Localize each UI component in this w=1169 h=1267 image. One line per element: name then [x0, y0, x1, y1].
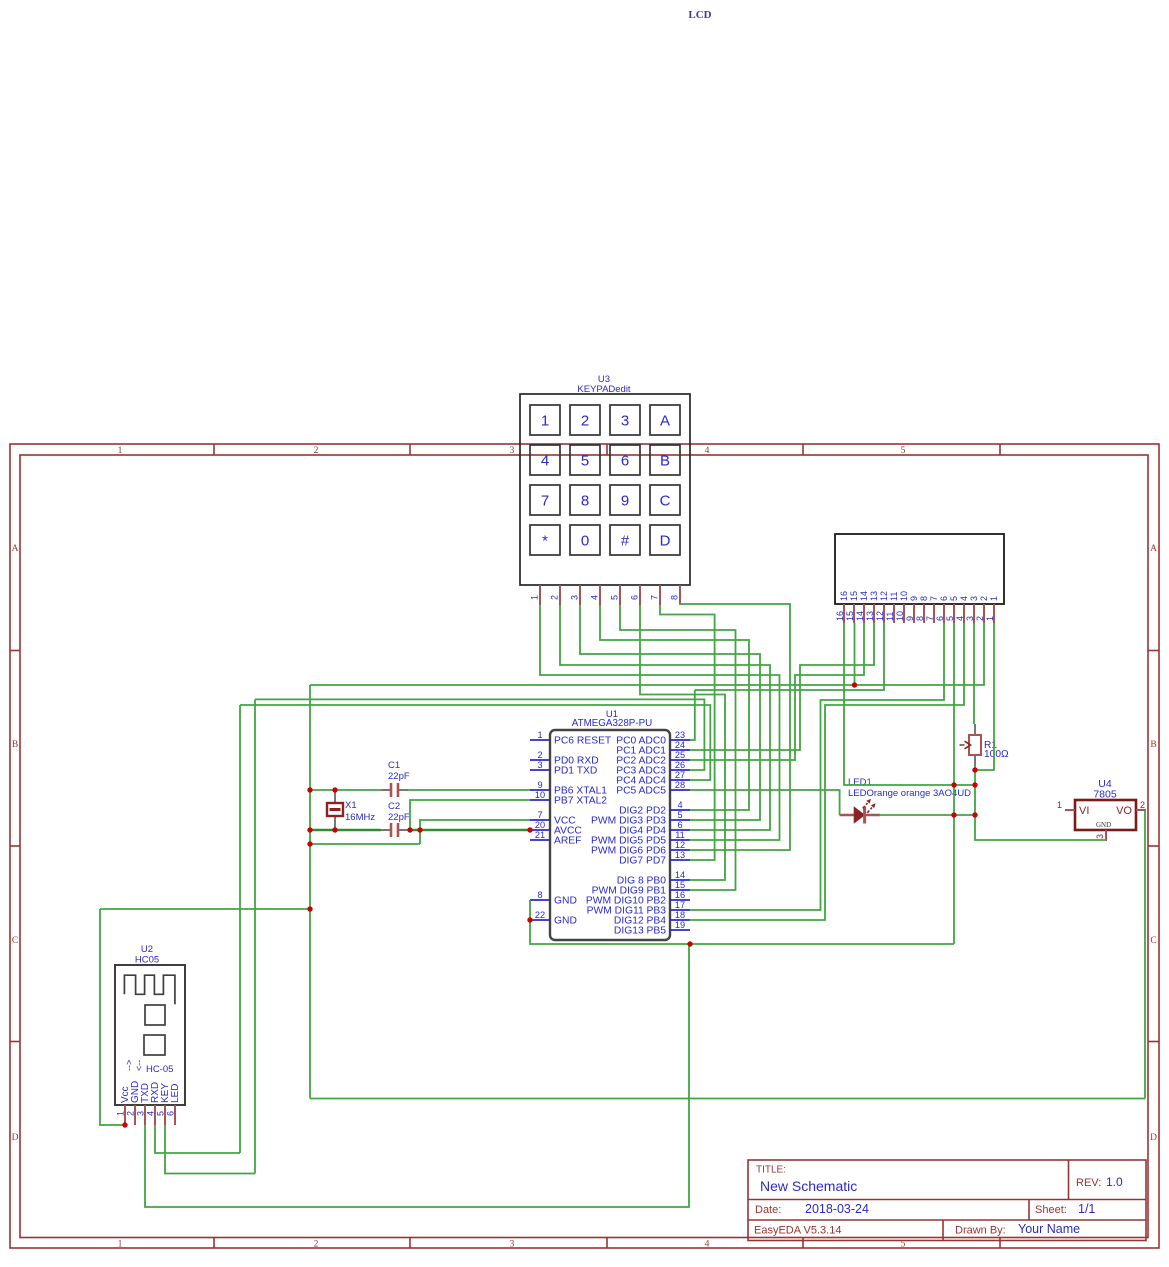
- junction: [687, 941, 692, 946]
- wire HC05 KEY down: [165, 1125, 255, 1174]
- svg-text:12: 12: [879, 591, 889, 601]
- svg-text:1: 1: [541, 413, 549, 430]
- keypad pin 4: [599, 585, 601, 605]
- svg-text:1.0: 1.0: [1106, 1175, 1123, 1189]
- key A: [650, 405, 680, 435]
- U1 pin 8 GND: [530, 899, 550, 901]
- junction: [417, 827, 422, 832]
- LCD pin 9: [913, 604, 915, 623]
- LCD pin 14: [863, 604, 865, 623]
- junction: [307, 787, 312, 792]
- svg-text:22: 22: [535, 910, 545, 920]
- svg-text:21: 21: [535, 830, 545, 840]
- svg-text:6: 6: [935, 616, 945, 621]
- U1 pin 15 PWM DIG9 PB1: [670, 889, 690, 891]
- U1 pin 10 PB7 XTAL2: [530, 799, 550, 801]
- U1 pin 25 PC2 ADC2: [670, 759, 690, 761]
- svg-text:16MHz: 16MHz: [345, 812, 375, 823]
- LCD pin 11: [893, 604, 895, 623]
- svg-text:4: 4: [146, 1111, 156, 1116]
- svg-text:3: 3: [570, 595, 580, 600]
- wire keypad5 to U1 pin15: [620, 605, 736, 890]
- svg-text:New Schematic: New Schematic: [760, 1178, 857, 1194]
- U1 pin 26 PC3 ADC3: [670, 769, 690, 771]
- U1 pin 5 PWM DIG3 PD3: [670, 819, 690, 821]
- svg-text:14: 14: [675, 870, 685, 880]
- svg-text:25: 25: [675, 750, 685, 760]
- svg-text:9: 9: [537, 780, 542, 790]
- svg-text:5: 5: [901, 446, 906, 456]
- LCD pin 1: [993, 604, 995, 623]
- svg-text:1: 1: [989, 596, 999, 601]
- svg-text:AREF: AREF: [554, 836, 581, 847]
- LCD pin 13: [873, 604, 875, 623]
- svg-text:23: 23: [675, 730, 685, 740]
- LCD pin 16: [843, 604, 845, 623]
- svg-text:6: 6: [630, 595, 640, 600]
- svg-text:A: A: [660, 413, 670, 430]
- wire HC05 RXD down: [155, 1125, 240, 1153]
- svg-text:DIG13 PB5: DIG13 PB5: [614, 926, 666, 937]
- junction: [527, 827, 532, 832]
- svg-text:4: 4: [705, 446, 710, 456]
- svg-text:1: 1: [116, 1111, 126, 1116]
- svg-text:TITLE:: TITLE:: [756, 1165, 786, 1176]
- svg-text:12: 12: [875, 611, 885, 621]
- keypad pin 8: [679, 585, 681, 605]
- wire 5V vertical rail: [309, 685, 311, 1099]
- svg-text:VI: VI: [1079, 805, 1089, 817]
- wire HC05 KEY vertical: [254, 699, 256, 1173]
- wire keypad4 to U1 pin4: [600, 605, 749, 810]
- U1 pin 18 DIG12 PB4: [670, 919, 690, 921]
- wire HC05 Vcc riser: [100, 909, 125, 1125]
- svg-text:3: 3: [965, 616, 975, 621]
- U2 pin 5 KEY: [164, 1105, 166, 1125]
- LCD pin 6: [943, 604, 945, 623]
- svg-text:5: 5: [581, 453, 589, 470]
- U1 pin 28 PC5 ADC5: [670, 789, 690, 791]
- U4 pin 3 GND: [1105, 830, 1107, 841]
- svg-text:REV:: REV:: [1076, 1177, 1101, 1189]
- svg-text:ATMEGA328P-PU: ATMEGA328P-PU: [572, 718, 652, 729]
- U2 pin 3 TXD: [144, 1105, 146, 1125]
- svg-text:1: 1: [118, 1240, 123, 1250]
- svg-text:A: A: [1150, 544, 1157, 554]
- svg-text:26: 26: [675, 760, 685, 770]
- wire U1 pin24 to LCD pin13: [690, 623, 874, 750]
- keypad pin 6: [639, 585, 641, 605]
- sheet border frame: [10, 444, 1159, 1248]
- svg-text:11: 11: [889, 592, 899, 601]
- svg-text:Drawn By:: Drawn By:: [955, 1225, 1006, 1237]
- wire LCD pin1 to R1 bottom: [975, 623, 994, 770]
- wire keypad1 to U1 pin11: [540, 605, 780, 840]
- wire C2 left (AVCC net): [310, 829, 381, 832]
- U1 pin 22 GND: [530, 919, 550, 921]
- junction: [951, 812, 956, 817]
- svg-text:20: 20: [535, 820, 545, 830]
- svg-text:10: 10: [895, 611, 905, 621]
- svg-text:6: 6: [677, 820, 682, 830]
- svg-text:D: D: [1150, 1133, 1157, 1143]
- svg-text:EasyEDA V5.3.14: EasyEDA V5.3.14: [754, 1225, 841, 1237]
- key 5: [570, 445, 600, 475]
- svg-text:2: 2: [550, 595, 560, 600]
- svg-text:18: 18: [675, 910, 685, 920]
- wire LCD pin16 to y785: [844, 623, 975, 785]
- svg-text:5: 5: [156, 1111, 166, 1116]
- svg-text:6: 6: [621, 453, 629, 470]
- svg-text:28: 28: [675, 780, 685, 790]
- svg-text:5: 5: [945, 616, 955, 621]
- wire HC05 KEY riser to U1 pin26: [255, 699, 704, 770]
- svg-text:13: 13: [675, 850, 685, 860]
- svg-text:5: 5: [677, 810, 682, 820]
- svg-text:17: 17: [675, 900, 685, 910]
- junction: [972, 812, 977, 817]
- svg-text:7: 7: [650, 595, 660, 600]
- key 9: [610, 485, 640, 515]
- U1 pin 12 PWM DIG6 PD6: [670, 849, 690, 851]
- svg-text:0: 0: [581, 533, 589, 550]
- svg-text:9: 9: [909, 596, 919, 601]
- keypad pin 3: [579, 585, 581, 605]
- svg-text:7: 7: [537, 810, 542, 820]
- svg-text:4: 4: [590, 595, 600, 600]
- svg-text:3: 3: [1095, 834, 1105, 839]
- svg-text:C1: C1: [388, 760, 400, 771]
- key D: [650, 525, 680, 555]
- svg-text:1: 1: [530, 595, 540, 600]
- svg-text:LED1: LED1: [848, 777, 872, 788]
- junction: [307, 841, 312, 846]
- wire keypad7 to U1 pin13: [660, 605, 715, 860]
- svg-text:C: C: [12, 936, 18, 946]
- svg-text:GND: GND: [554, 896, 577, 907]
- LCD module box: [835, 534, 1004, 604]
- key 4: [530, 445, 560, 475]
- svg-text:3: 3: [510, 446, 515, 456]
- svg-text:GND: GND: [1096, 821, 1111, 829]
- junction: [972, 782, 977, 787]
- wire keypad3 to U1 pin5: [580, 605, 760, 820]
- svg-text:7: 7: [929, 596, 939, 601]
- svg-text:14: 14: [859, 591, 869, 601]
- U4 pin 2 VO: [1136, 809, 1146, 811]
- svg-text:2: 2: [314, 1240, 319, 1250]
- svg-text:8: 8: [919, 596, 929, 601]
- svg-text:2: 2: [979, 596, 989, 601]
- junction: [407, 827, 412, 832]
- svg-text:4: 4: [705, 1240, 710, 1250]
- wire LCD pin4 to U1 pin18: [690, 623, 964, 920]
- svg-text:24: 24: [675, 740, 685, 750]
- U1 pin 2 PD0 RXD: [530, 759, 550, 761]
- LCD pin 2: [983, 604, 985, 623]
- svg-text:2: 2: [581, 413, 589, 430]
- U1 pin 14 DIG 8 PB0: [670, 879, 690, 881]
- svg-text:1: 1: [118, 446, 123, 456]
- wire R1 bottom to U4 GND: [975, 766, 1106, 840]
- wire node jog to U1 pin23: [690, 690, 695, 740]
- svg-text:4: 4: [677, 800, 682, 810]
- U2 pin 2 GND: [134, 1105, 136, 1125]
- svg-text:13: 13: [865, 611, 875, 621]
- junction: [307, 827, 312, 832]
- wire LCD pin3 to R1: [973, 623, 975, 724]
- svg-text:#: #: [621, 533, 630, 550]
- U1 pin 3 PD1 TXD: [530, 769, 550, 771]
- svg-text:22pF: 22pF: [388, 812, 410, 823]
- LCD pin 3: [973, 604, 975, 623]
- key 3: [610, 405, 640, 435]
- LCD pin 4: [963, 604, 965, 623]
- U1 pin 23 PC0 ADC0: [670, 739, 690, 741]
- svg-text:9: 9: [905, 616, 915, 621]
- wire LCD pin15 to rail: [854, 623, 856, 685]
- wire U1 pin10 to C2: [410, 800, 530, 830]
- svg-text:2: 2: [126, 1111, 136, 1116]
- svg-text:LCD: LCD: [688, 9, 711, 21]
- junction: [951, 782, 956, 787]
- svg-text:B: B: [12, 740, 18, 750]
- svg-text:6: 6: [166, 1111, 176, 1116]
- svg-text:14: 14: [855, 611, 865, 621]
- svg-text:-->: -->: [124, 1060, 134, 1071]
- svg-text:11: 11: [675, 830, 685, 840]
- U2 pin 6 LED: [174, 1105, 176, 1125]
- wire y844: [310, 843, 420, 845]
- svg-text:1: 1: [1057, 800, 1062, 810]
- junction: [527, 917, 532, 922]
- crystal X1 16MHz: [334, 790, 336, 805]
- svg-text:VO: VO: [1116, 805, 1132, 817]
- svg-text:C: C: [660, 493, 671, 510]
- HC05 chip square 2: [144, 1035, 165, 1055]
- svg-text:PD1 TXD: PD1 TXD: [554, 766, 597, 777]
- U1 pin 27 PC4 ADC4: [670, 779, 690, 781]
- svg-text:2: 2: [537, 750, 542, 760]
- svg-text:12: 12: [675, 840, 685, 850]
- svg-text:27: 27: [675, 770, 685, 780]
- wire 5V rail to LCD pin2: [310, 623, 984, 685]
- svg-text:A: A: [12, 544, 19, 554]
- junction: [332, 827, 337, 832]
- LCD pin 15: [853, 604, 855, 623]
- wire U4 VO down: [1144, 810, 1146, 1099]
- svg-text:C2: C2: [388, 801, 400, 812]
- key 7: [530, 485, 560, 515]
- svg-text:15: 15: [675, 880, 685, 890]
- wire C1 left: [310, 789, 381, 791]
- svg-text:4: 4: [541, 453, 549, 470]
- svg-text:X1: X1: [345, 800, 357, 811]
- svg-text:5: 5: [949, 596, 959, 601]
- svg-text:PB7 XTAL2: PB7 XTAL2: [554, 796, 607, 807]
- U1 pin 19 DIG13 PB5: [670, 929, 690, 931]
- junction: [307, 906, 312, 911]
- svg-text:2018-03-24: 2018-03-24: [805, 1202, 869, 1216]
- svg-text:19: 19: [675, 920, 685, 930]
- svg-text:Date:: Date:: [755, 1204, 781, 1216]
- svg-text:16: 16: [835, 611, 845, 621]
- HC05 antenna: [124, 975, 174, 1004]
- U1 pin 13 DIG7 PD7: [670, 859, 690, 861]
- key 2: [570, 405, 600, 435]
- svg-text:7: 7: [925, 616, 935, 621]
- svg-text:8: 8: [537, 890, 542, 900]
- svg-text:3: 3: [537, 760, 542, 770]
- wire jog to LCD pin12: [695, 623, 884, 690]
- svg-text:GND: GND: [554, 916, 577, 927]
- keypad pin 5: [619, 585, 621, 605]
- svg-text:4: 4: [959, 596, 969, 601]
- junction: [332, 787, 337, 792]
- svg-text:100Ω: 100Ω: [984, 749, 1009, 760]
- svg-text:HC05: HC05: [135, 955, 159, 966]
- svg-text:U2: U2: [141, 944, 153, 955]
- wire LED1 to x975: [879, 814, 975, 816]
- svg-text:10: 10: [899, 591, 909, 601]
- junction: [122, 1122, 127, 1127]
- svg-text:15: 15: [849, 591, 859, 601]
- wire HC05 Vcc to rail: [100, 908, 310, 910]
- svg-text:1/1: 1/1: [1078, 1202, 1095, 1216]
- wire keypad2 to U1 pin6: [560, 605, 770, 830]
- U1 pin 9 PB6 XTAL1: [530, 789, 550, 791]
- U1 pin 24 PC1 ADC1: [670, 749, 690, 751]
- svg-text:3: 3: [136, 1111, 146, 1116]
- wire keypad8 to U1 pin12: [680, 604, 790, 850]
- svg-text:LEDOrange orange 3AO4UD: LEDOrange orange 3AO4UD: [848, 788, 971, 799]
- svg-text:15: 15: [845, 611, 855, 621]
- svg-text:B: B: [1150, 740, 1156, 750]
- svg-text:<--: <--: [134, 1060, 144, 1071]
- wire keypad6 to U1 pin14: [640, 605, 725, 880]
- svg-text:HC-05: HC-05: [146, 1064, 173, 1075]
- U4 pin 1 VI: [1065, 809, 1075, 811]
- svg-text:7: 7: [541, 493, 549, 510]
- U1 pin 1 PC6 RESET: [530, 739, 550, 741]
- svg-text:D: D: [12, 1133, 19, 1143]
- U1 pin 16 PWM DIG10 PB2: [670, 899, 690, 901]
- svg-text:3: 3: [510, 1240, 515, 1250]
- svg-text:Sheet:: Sheet:: [1035, 1204, 1067, 1216]
- key C: [650, 485, 680, 515]
- U1 pin 17 PWM DIG11 PB3: [670, 909, 690, 911]
- svg-text:PC5 ADC5: PC5 ADC5: [616, 786, 666, 797]
- key B: [650, 445, 680, 475]
- keypad pin 2: [559, 585, 561, 605]
- key 6: [610, 445, 640, 475]
- wire HC05 RXD vertical: [239, 705, 241, 1153]
- LCD pin 5: [953, 604, 955, 623]
- svg-text:9: 9: [621, 493, 629, 510]
- resistor R1 100 ohm: [974, 724, 976, 735]
- keypad pin 7: [659, 585, 661, 605]
- svg-text:*: *: [542, 533, 548, 550]
- wire C1 right to U1 pin9: [408, 789, 530, 791]
- svg-text:4: 4: [955, 616, 965, 621]
- svg-text:8: 8: [670, 595, 680, 600]
- U1 pin 4 DIG2 PD2: [670, 809, 690, 811]
- svg-text:B: B: [660, 453, 670, 470]
- svg-text:3: 3: [621, 413, 629, 430]
- svg-text:11: 11: [885, 612, 895, 621]
- svg-text:8: 8: [581, 493, 589, 510]
- wire bottom 5V run: [310, 1098, 1145, 1100]
- svg-text:2: 2: [314, 446, 319, 456]
- svg-text:8: 8: [915, 616, 925, 621]
- svg-text:Your Name: Your Name: [1018, 1222, 1080, 1236]
- wire U1 pin7 down: [420, 820, 530, 844]
- LCD pin 12: [883, 604, 885, 623]
- key #: [610, 525, 640, 555]
- svg-text:1: 1: [985, 616, 995, 621]
- svg-text:13: 13: [869, 591, 879, 601]
- title block: [748, 1160, 1146, 1241]
- key 1: [530, 405, 560, 435]
- U1 pin 21 AREF: [530, 839, 550, 841]
- svg-text:C: C: [1150, 936, 1156, 946]
- LCD pin 7: [933, 604, 935, 623]
- svg-text:PC6 RESET: PC6 RESET: [554, 736, 612, 747]
- svg-text:5: 5: [610, 595, 620, 600]
- keypad pin 1: [539, 585, 541, 605]
- svg-text:3: 3: [969, 596, 979, 601]
- svg-text:16: 16: [839, 591, 849, 601]
- U1 pin 7 VCC: [530, 819, 550, 821]
- U1 pin 6 DIG4 PD4: [670, 829, 690, 831]
- wire U1 pin28 to LED1 anode: [690, 790, 840, 815]
- U2 pin 4 RXD: [154, 1105, 156, 1125]
- key *: [530, 525, 560, 555]
- U1 pin 11 PWM DIG5 PD5: [670, 839, 690, 841]
- LCD pin 10: [903, 604, 905, 623]
- U1 pin 20 AVCC: [530, 829, 550, 831]
- svg-text:LED: LED: [170, 1084, 181, 1103]
- wire LCD pin6 to U1 pin17: [690, 623, 944, 910]
- key 8: [570, 485, 600, 515]
- wire C2 right to U1 pin20: [408, 829, 530, 832]
- svg-text:1: 1: [537, 730, 542, 740]
- junction: [972, 767, 977, 772]
- wire U1 pin25 to LCD pin14: [690, 623, 864, 760]
- LCD pin 8: [923, 604, 925, 623]
- svg-text:D: D: [660, 533, 671, 550]
- wire LCD pin5 down to gnd rail: [953, 623, 955, 944]
- wire HC05 RXD riser to U1 pin27: [240, 705, 710, 780]
- svg-text:DIG7 PD7: DIG7 PD7: [619, 856, 666, 867]
- svg-text:10: 10: [535, 790, 545, 800]
- svg-text:16: 16: [675, 890, 685, 900]
- wire HC05 TXD to gnd rail: [145, 944, 689, 1207]
- HC05 chip square 1: [145, 1005, 165, 1025]
- U2 pin 1 Vcc: [124, 1105, 126, 1125]
- svg-text:2: 2: [1140, 800, 1145, 810]
- svg-text:6: 6: [939, 596, 949, 601]
- svg-text:22pF: 22pF: [388, 771, 410, 782]
- wire U1 GND rail: [530, 900, 954, 944]
- junction: [852, 682, 857, 687]
- svg-text:2: 2: [975, 616, 985, 621]
- key 0: [570, 525, 600, 555]
